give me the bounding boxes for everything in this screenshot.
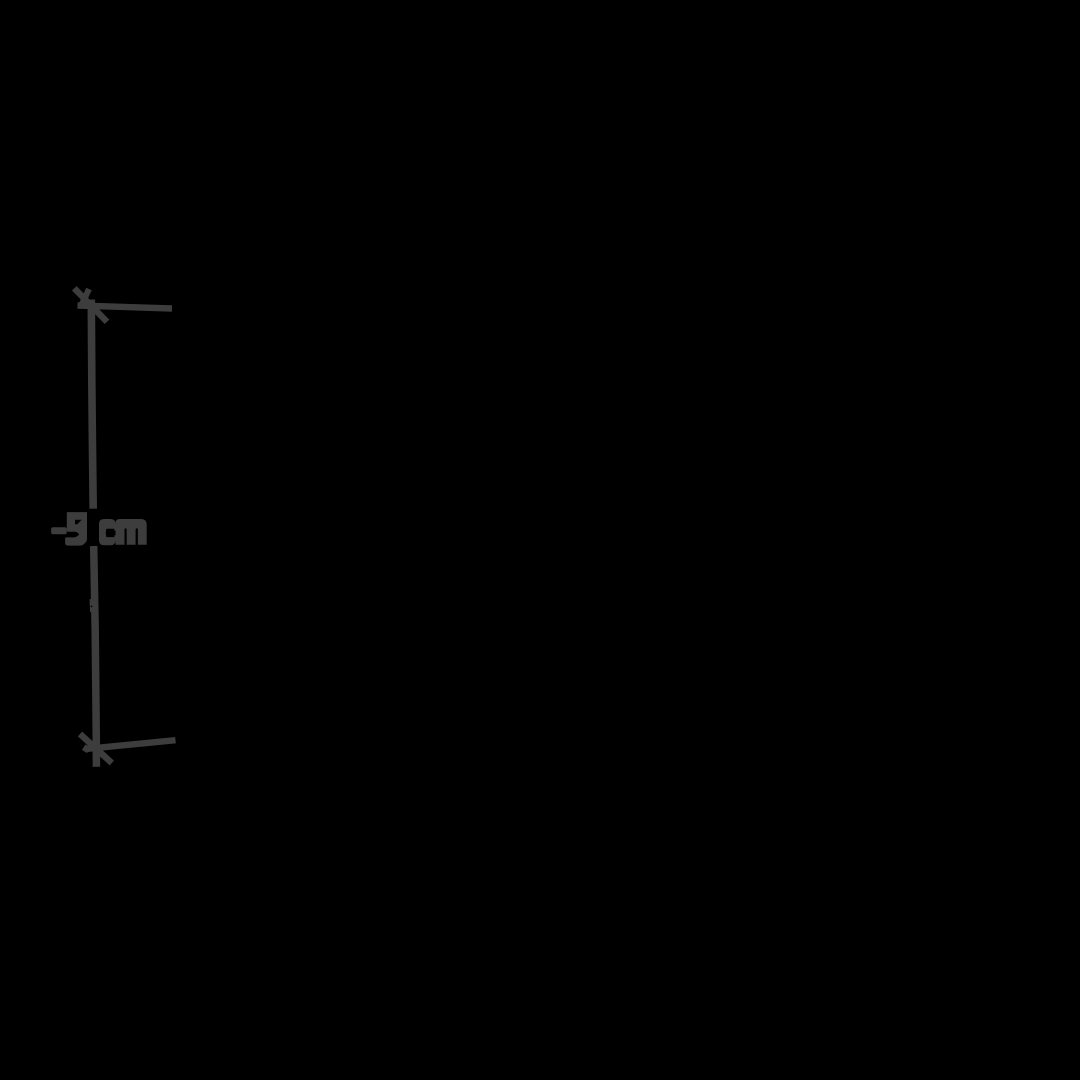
dimension line second pass jog [90, 599, 98, 612]
top arrowhead barb 2 [82, 289, 90, 305]
bottom extension line [88, 740, 176, 749]
label "-5 cm" digit 5 [65, 512, 87, 546]
pinhole gap in dimension line [91, 606, 93, 608]
top extension line [78, 306, 173, 309]
label "-5 cm" hyphen [51, 527, 67, 534]
bottom arrowhead barb 1 [80, 734, 112, 763]
top arrowhead barb 1 [74, 288, 107, 322]
label "-5 cm" letter c [99, 519, 116, 545]
label "-5 cm" letter m [116, 519, 147, 545]
dimension line upper segment [91, 300, 93, 509]
bottom arrowhead barb 2 [85, 746, 89, 752]
dimension line lower segment [94, 546, 97, 767]
